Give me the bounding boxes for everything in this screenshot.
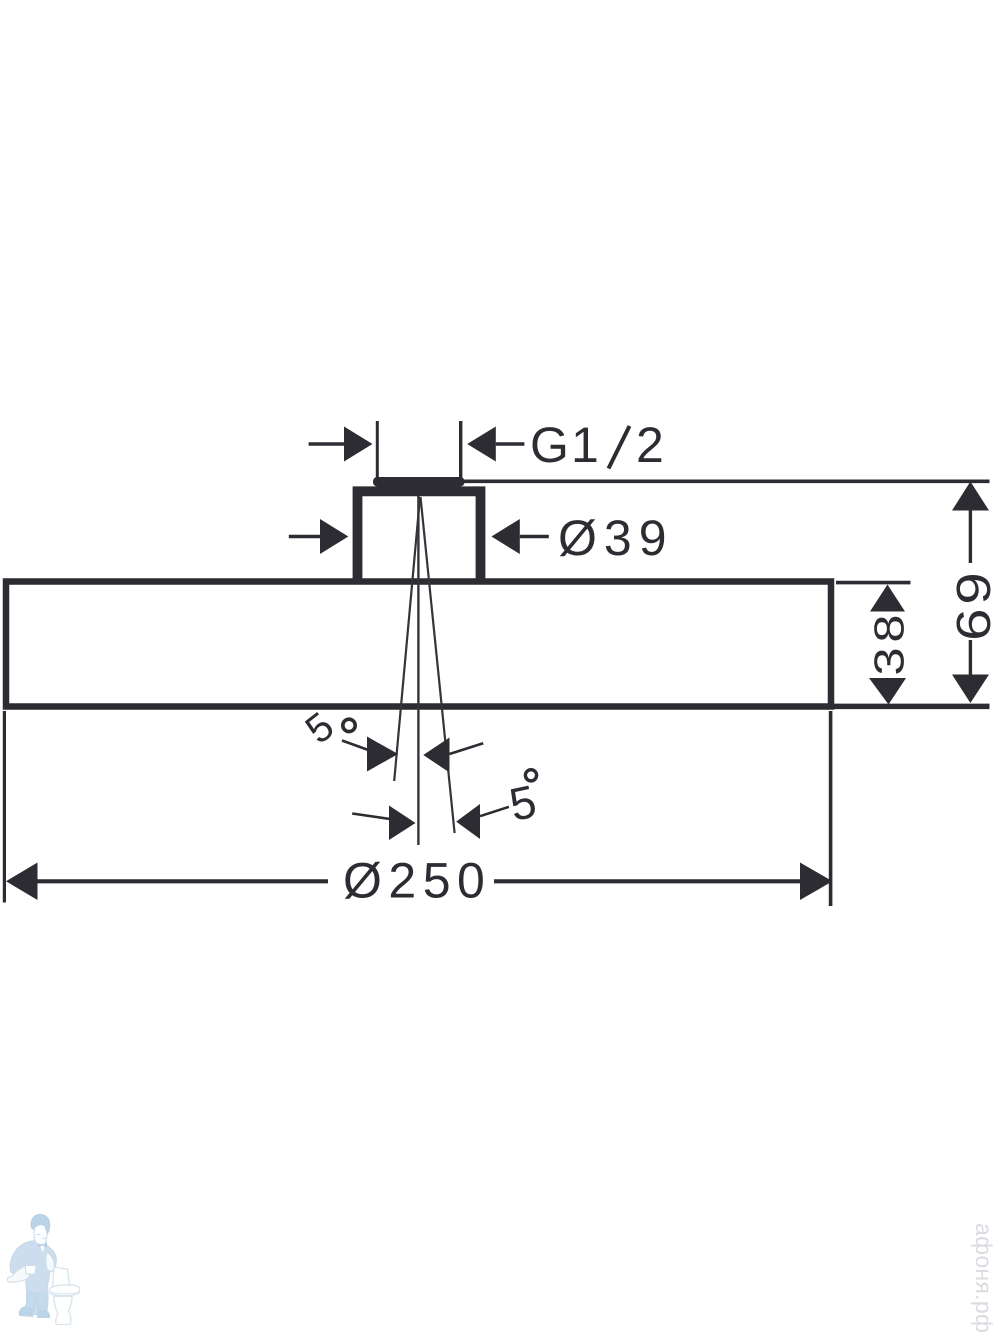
svg-text:Ø39: Ø39 xyxy=(558,510,674,566)
svg-text:69: 69 xyxy=(948,569,1000,641)
Ø39 arrow right xyxy=(492,519,549,554)
toilet seat xyxy=(50,1285,80,1296)
angle 5° lower xyxy=(352,770,541,840)
angle 5° upper xyxy=(298,704,484,772)
shower head disc body xyxy=(6,582,831,707)
plumber face xyxy=(34,1223,48,1245)
svg-text:афоня.рф: афоня.рф xyxy=(971,1223,997,1333)
G1/2 extension line right xyxy=(459,421,462,478)
G1/2 thread cap xyxy=(373,477,465,487)
legs xyxy=(24,1292,48,1313)
right cuff on tank xyxy=(46,1252,55,1272)
top extension line to 69 dimension xyxy=(464,479,990,483)
white cup in hand xyxy=(25,1266,36,1275)
dimension 38 (right of disc, vertical) xyxy=(836,583,913,705)
right shoe xyxy=(37,1310,50,1319)
connector body (Ø39) xyxy=(358,491,481,582)
shirt + bow tie xyxy=(38,1241,46,1254)
G1/2 arrow right xyxy=(467,427,524,462)
G1/2 arrow left xyxy=(309,427,373,462)
dimension 69 (right, vertical) xyxy=(834,482,1000,707)
svg-text:Ø250: Ø250 xyxy=(343,853,491,909)
left spray angle line xyxy=(394,497,420,781)
toilet tank xyxy=(53,1267,71,1289)
svg-text:G12: G12 xyxy=(530,417,664,473)
left shoe xyxy=(19,1307,34,1318)
svg-text:38: 38 xyxy=(866,610,913,676)
center line xyxy=(417,478,419,845)
beret hat xyxy=(31,1214,50,1233)
right spray angle line xyxy=(421,497,455,833)
watermark plumber logo (bottom-left) xyxy=(7,1214,79,1324)
toilet base xyxy=(54,1297,73,1325)
Ø39 arrow left xyxy=(289,519,349,554)
G1/2 extension line left xyxy=(376,421,379,478)
left forearm + white glove xyxy=(7,1267,30,1283)
plumber suit body xyxy=(10,1241,56,1316)
dimension Ø250 (bottom) xyxy=(4,711,832,909)
